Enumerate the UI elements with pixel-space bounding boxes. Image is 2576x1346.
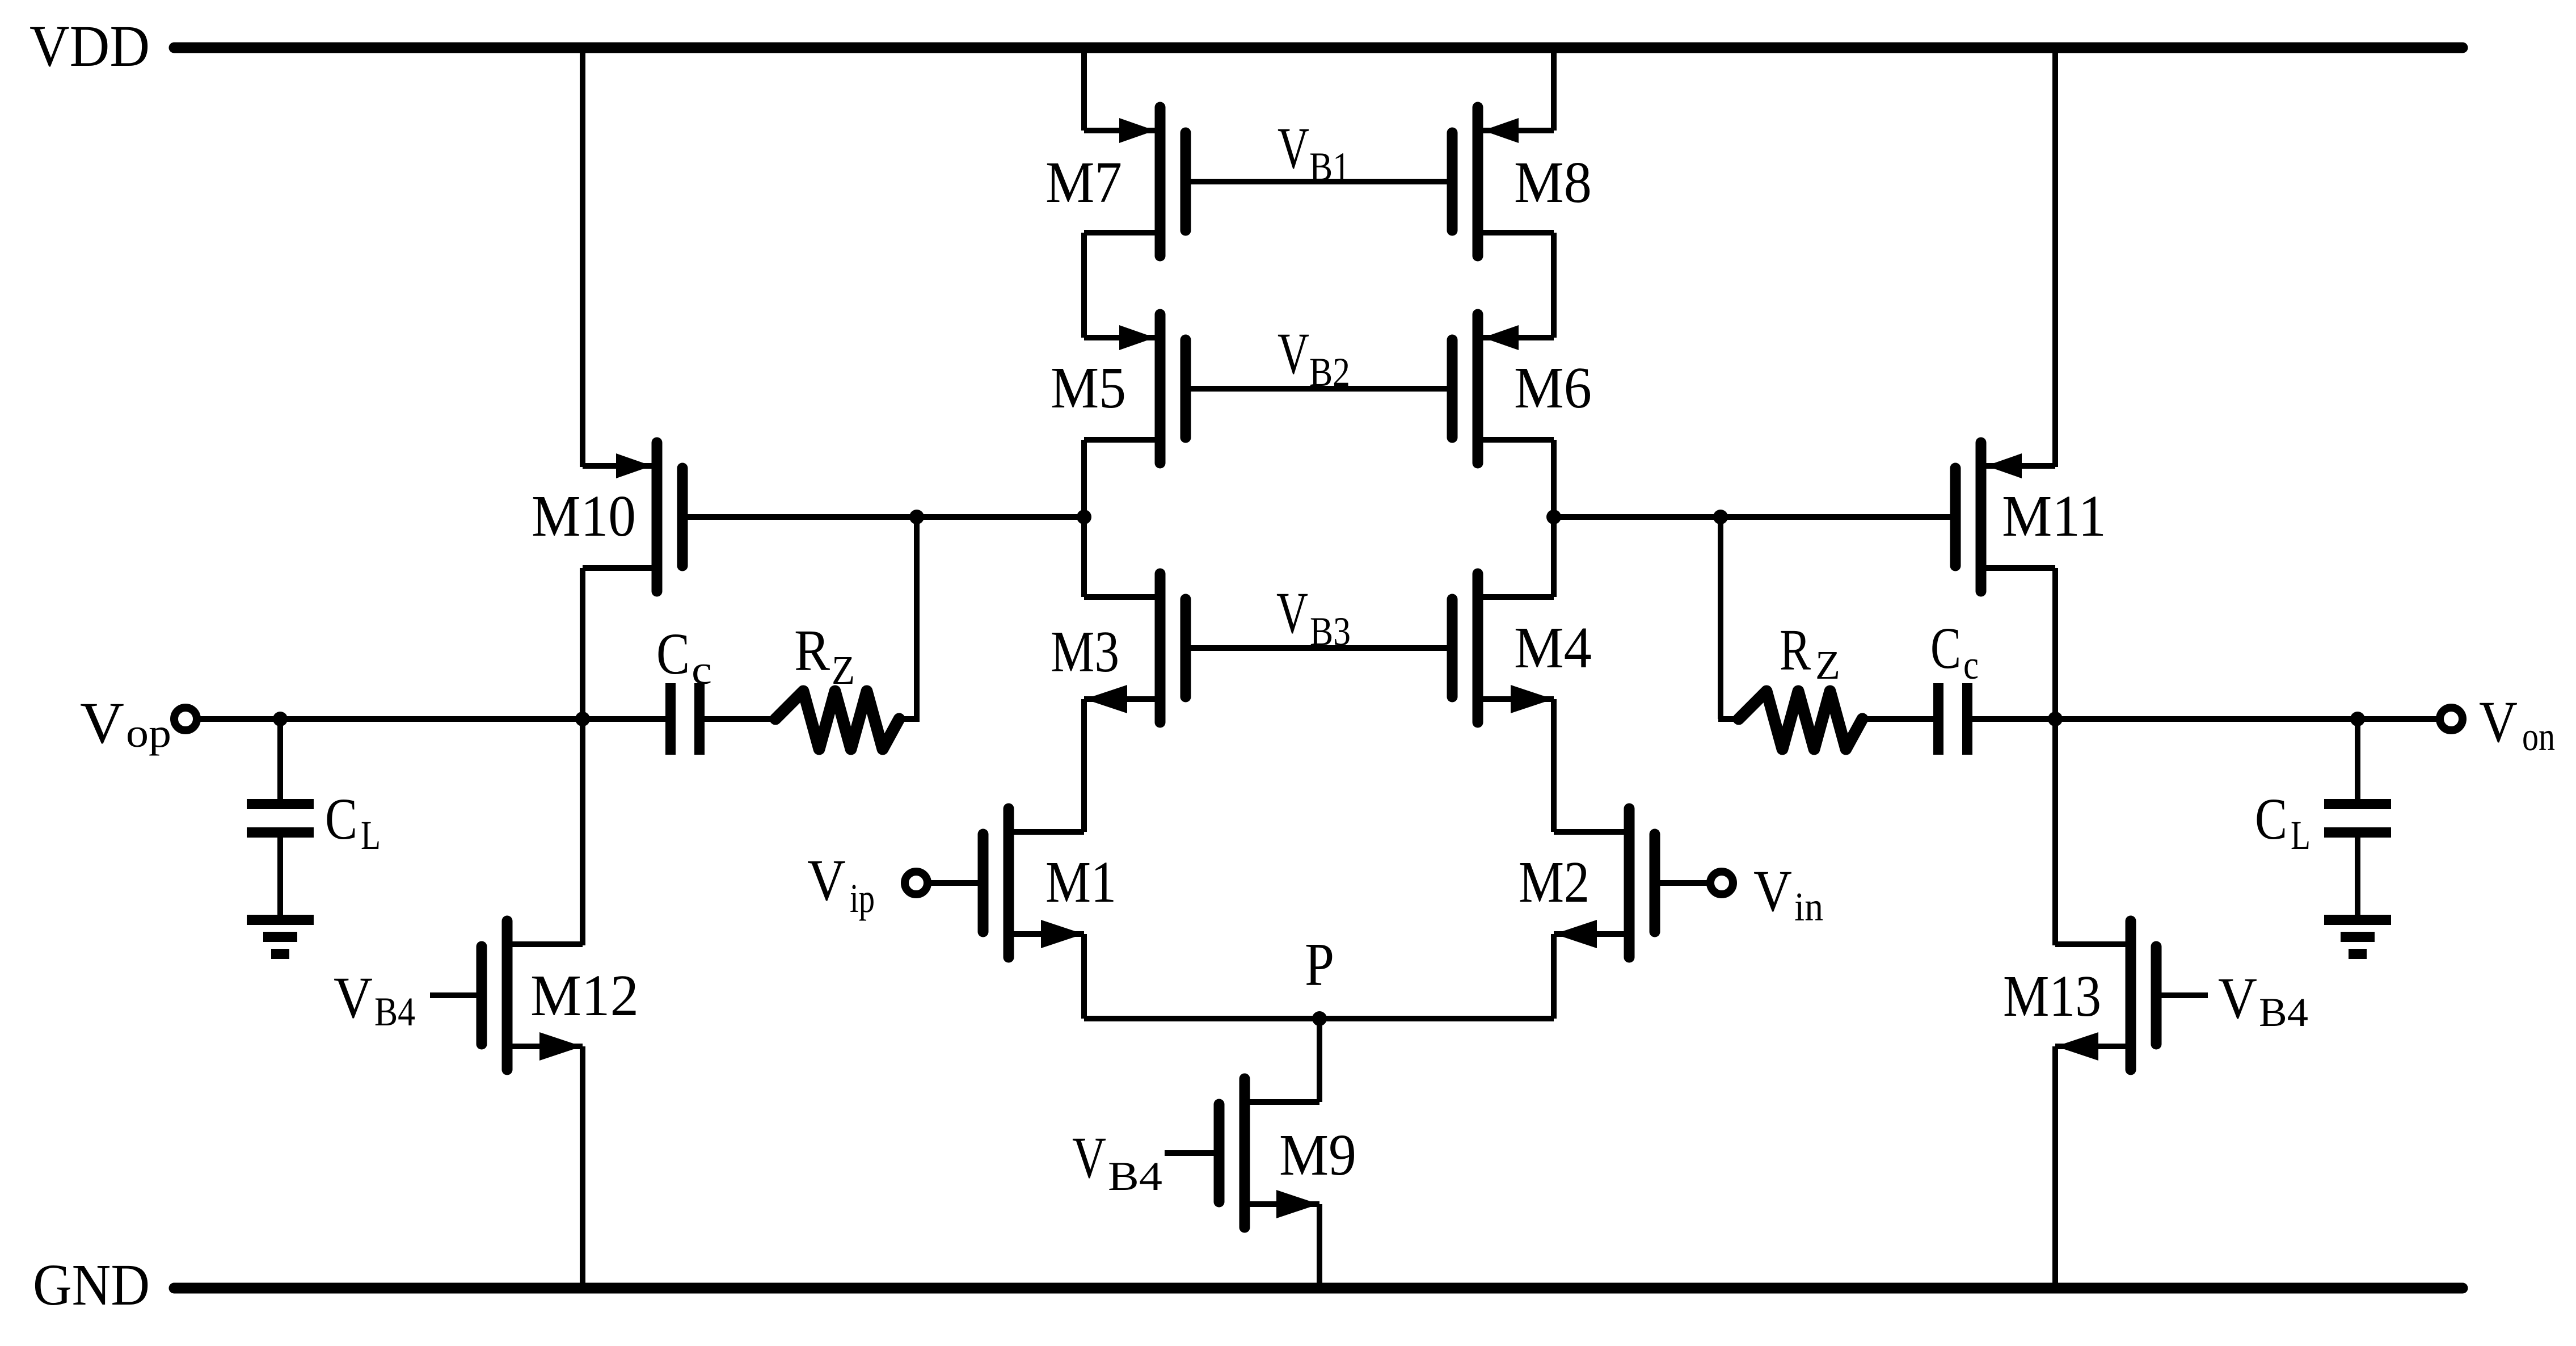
svg-text:V: V xyxy=(334,965,373,1030)
svg-text:C: C xyxy=(1930,616,1961,681)
svg-text:V: V xyxy=(1278,116,1309,181)
svg-text:M6: M6 xyxy=(1514,355,1592,420)
svg-text:V: V xyxy=(2479,689,2518,755)
svg-text:VDD: VDD xyxy=(29,14,150,79)
svg-text:Z: Z xyxy=(1815,642,1840,688)
svg-text:M2: M2 xyxy=(1519,849,1590,915)
svg-text:R: R xyxy=(1780,617,1811,683)
svg-text:in: in xyxy=(1794,884,1823,929)
svg-text:V: V xyxy=(1072,1125,1106,1191)
svg-text:B4: B4 xyxy=(1108,1154,1162,1199)
svg-text:V: V xyxy=(1753,859,1792,924)
svg-text:C: C xyxy=(325,786,357,852)
svg-text:M9: M9 xyxy=(1279,1122,1356,1188)
svg-text:c: c xyxy=(692,647,712,693)
svg-text:M8: M8 xyxy=(1514,150,1592,215)
svg-text:c: c xyxy=(1963,642,1979,688)
svg-text:P: P xyxy=(1305,931,1334,999)
svg-text:V: V xyxy=(807,848,846,913)
svg-text:M1: M1 xyxy=(1045,849,1116,915)
svg-text:L: L xyxy=(2291,813,2311,858)
svg-text:B2: B2 xyxy=(1309,350,1350,395)
svg-text:ip: ip xyxy=(850,876,875,921)
svg-text:V: V xyxy=(1278,321,1309,386)
svg-text:B4: B4 xyxy=(374,989,415,1034)
svg-text:M5: M5 xyxy=(1051,355,1126,420)
svg-text:V: V xyxy=(80,691,124,756)
svg-text:on: on xyxy=(2522,714,2555,759)
svg-text:C: C xyxy=(2255,786,2287,852)
svg-text:op: op xyxy=(126,710,171,756)
svg-text:M13: M13 xyxy=(2003,964,2101,1029)
svg-text:M10: M10 xyxy=(532,483,636,549)
svg-text:M3: M3 xyxy=(1051,619,1119,684)
svg-text:L: L xyxy=(361,813,381,858)
svg-text:B4: B4 xyxy=(2259,990,2308,1035)
svg-text:R: R xyxy=(794,618,830,683)
svg-text:M11: M11 xyxy=(2002,483,2106,549)
svg-text:M7: M7 xyxy=(1045,150,1122,215)
svg-text:C: C xyxy=(656,621,690,687)
svg-text:Z: Z xyxy=(832,647,855,693)
svg-text:M4: M4 xyxy=(1514,615,1592,680)
svg-text:B3: B3 xyxy=(1310,609,1351,654)
svg-text:M12: M12 xyxy=(530,963,639,1028)
svg-text:GND: GND xyxy=(33,1252,150,1318)
svg-text:V: V xyxy=(2218,966,2257,1031)
svg-text:V: V xyxy=(1276,581,1308,646)
svg-text:B1: B1 xyxy=(1309,144,1350,190)
